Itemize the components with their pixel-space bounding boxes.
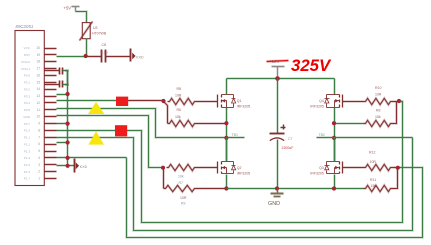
capacitor C7 2200uF polarized xyxy=(270,132,285,135)
wire +325V top rail xyxy=(227,77,335,80)
svg-text:9: 9 xyxy=(38,122,40,126)
svg-text:P3.4: P3.4 xyxy=(24,101,31,105)
svg-text:IRF3205: IRF3205 xyxy=(310,171,323,175)
node Q4 gate drive junction xyxy=(397,99,401,103)
wire F6 to connector xyxy=(57,164,75,167)
wire Q2 source to rail xyxy=(225,175,228,189)
node Q1 gate drive junction xyxy=(161,99,165,103)
wire U3 to node xyxy=(85,39,88,57)
resistor R12 10R xyxy=(343,166,364,169)
marker yellow triangle 1 xyxy=(88,102,105,114)
svg-text:Q3: Q3 xyxy=(319,166,324,170)
svg-text:17: 17 xyxy=(36,67,40,71)
svg-text:18: 18 xyxy=(36,60,40,64)
capacitor C2 xyxy=(45,69,60,72)
wire F1 P1 drive to Q1 gate node xyxy=(57,99,129,102)
node supply junction xyxy=(275,76,280,81)
node A junction xyxy=(84,54,88,58)
wire common-net pin stub middle xyxy=(57,122,68,125)
svg-text:P3.0: P3.0 xyxy=(24,74,31,78)
resistor R6 15k xyxy=(164,102,168,124)
svg-text:U3: U3 xyxy=(93,26,98,30)
wire node A to C8 xyxy=(86,55,102,58)
svg-text:R8: R8 xyxy=(177,87,182,91)
transistor Q4 IRF3205 xyxy=(342,95,344,108)
svg-text:R12: R12 xyxy=(369,151,375,155)
svg-text:6: 6 xyxy=(38,142,40,146)
svg-text:Q1: Q1 xyxy=(237,99,242,103)
svg-text:4: 4 xyxy=(38,156,40,160)
svg-text:325V: 325V xyxy=(291,56,332,75)
IC pin numbers xyxy=(36,46,40,181)
node Q2 gate drive junction xyxy=(161,166,165,170)
off-page connector KXD (top) xyxy=(129,49,132,62)
svg-text:IRF3205: IRF3205 xyxy=(237,171,250,175)
wire bottom rail xyxy=(227,187,364,190)
svg-text:P3.1: P3.1 xyxy=(24,81,31,85)
svg-text:12: 12 xyxy=(36,101,40,105)
svg-text:89C2051: 89C2051 xyxy=(16,24,34,29)
wire TB1 stub xyxy=(227,136,245,139)
svg-text:R9: R9 xyxy=(181,202,186,206)
svg-text:7: 7 xyxy=(38,135,40,139)
svg-text:11: 11 xyxy=(37,108,41,112)
svg-text:P1.0: P1.0 xyxy=(24,129,31,133)
wire C7 to bottom rail xyxy=(276,140,279,189)
svg-text:IRF3205: IRF3205 xyxy=(237,105,250,109)
svg-text:10k: 10k xyxy=(178,175,184,179)
varistor U3 HT07WB xyxy=(82,23,90,39)
wire rail to Q4 drain xyxy=(333,79,336,95)
svg-text:RST: RST xyxy=(24,53,30,57)
svg-text:VCC: VCC xyxy=(24,46,31,50)
svg-text:10R: 10R xyxy=(375,93,382,97)
svg-text:R9: R9 xyxy=(376,109,381,113)
svg-text:+5V: +5V xyxy=(64,6,72,11)
wire TB2 midpoint column xyxy=(333,108,336,162)
svg-text:10R: 10R xyxy=(180,196,187,200)
svg-text:P3.3: P3.3 xyxy=(24,94,31,98)
svg-text:IRF3205: IRF3205 xyxy=(310,105,323,109)
svg-text:1: 1 xyxy=(38,177,40,181)
wire common-net pin stub lower xyxy=(57,141,68,144)
wire pin row to node A xyxy=(57,55,86,58)
marker red square 1 xyxy=(116,97,128,106)
wire TB1 midpoint column xyxy=(225,108,228,162)
capacitor C8 0.1u xyxy=(100,50,103,63)
svg-text:KXD: KXD xyxy=(80,165,88,169)
wire F2 to TB1 node xyxy=(57,109,227,138)
wire F4 drive wrap to Q4 xyxy=(57,102,403,223)
wire Q3 source to rail xyxy=(333,175,336,189)
wire Q2 drain xyxy=(225,138,228,162)
svg-text:3: 3 xyxy=(38,163,40,167)
svg-text:TB1: TB1 xyxy=(232,133,238,137)
svg-text:8: 8 xyxy=(38,128,40,132)
node Q3 gate drive junction xyxy=(396,166,400,170)
svg-text:14: 14 xyxy=(36,87,40,91)
IC pin names xyxy=(21,46,31,181)
svg-text:10R: 10R xyxy=(175,94,182,98)
wire F5 wrap to TB2 xyxy=(57,138,413,231)
svg-text:R11: R11 xyxy=(370,178,376,182)
wire +5V to U3 xyxy=(76,12,87,23)
svg-text:C7: C7 xyxy=(288,137,293,141)
svg-text:P1.1: P1.1 xyxy=(24,136,31,140)
svg-text:P1.4: P1.4 xyxy=(24,156,31,160)
svg-text:C8: C8 xyxy=(102,43,107,47)
svg-text:2: 2 xyxy=(38,170,40,174)
marker yellow triangle 2 xyxy=(89,131,105,144)
svg-text:Q4: Q4 xyxy=(319,99,324,103)
svg-text:R10: R10 xyxy=(375,86,381,90)
svg-text:R7: R7 xyxy=(179,181,184,185)
resistor R10 10R xyxy=(343,100,364,103)
IC U1 89C2051 microcontroller xyxy=(15,31,44,186)
wire C8 to connector xyxy=(106,55,131,58)
wire TB2 stub xyxy=(317,136,335,139)
svg-text:0.1u: 0.1u xyxy=(101,50,108,54)
ground symbol GND xyxy=(275,186,279,190)
svg-text:P1.2: P1.2 xyxy=(24,142,31,146)
transistor Q3 IRF3205 xyxy=(342,162,344,174)
svg-text:P1.7: P1.7 xyxy=(24,177,31,181)
wire TB2 wrap to right xyxy=(335,136,413,139)
svg-text:P1.3: P1.3 xyxy=(24,149,31,153)
svg-text:KXD: KXD xyxy=(136,55,144,59)
marker red square 2 xyxy=(115,125,127,136)
resistor R5 10R pulldown xyxy=(162,168,165,189)
IC pin stubs and pin numbers xyxy=(45,49,57,179)
wire Q3 drain xyxy=(333,138,336,162)
svg-text:GND: GND xyxy=(268,201,280,207)
off-page connector KXD (bottom) xyxy=(73,159,76,173)
wire crystal loop xyxy=(63,71,68,85)
wire rail to C7 xyxy=(276,79,279,134)
wire common-net pin stub upper xyxy=(57,93,68,96)
svg-text:Q2: Q2 xyxy=(237,166,242,170)
svg-text:GND: GND xyxy=(23,115,31,119)
svg-text:15: 15 xyxy=(36,80,40,84)
svg-text:10: 10 xyxy=(36,115,40,119)
wire F3 drive to Q2 gate node xyxy=(57,116,164,168)
capacitor C3 xyxy=(45,83,60,86)
wire F5 drive wrap to Q3 xyxy=(57,156,127,159)
svg-text:XTAL2: XTAL2 xyxy=(21,60,30,64)
svg-text:16: 16 xyxy=(36,73,40,77)
transistor Q1 IRF3205 xyxy=(217,95,219,108)
svg-text:19: 19 xyxy=(36,53,40,57)
svg-text:XTAL1: XTAL1 xyxy=(21,67,30,71)
svg-text:P3.7: P3.7 xyxy=(24,122,31,126)
svg-text:5: 5 xyxy=(38,149,40,153)
wire left vertical net xyxy=(66,71,69,166)
svg-text:P1.6: P1.6 xyxy=(24,170,31,174)
svg-text:P3.2: P3.2 xyxy=(24,87,31,91)
wire Q1 drain to rail xyxy=(225,79,228,95)
transistor Q2 IRF3205 xyxy=(217,162,219,174)
svg-text:TB2: TB2 xyxy=(319,133,325,137)
svg-text:13: 13 xyxy=(36,94,40,98)
svg-text:20: 20 xyxy=(36,46,40,50)
svg-text:P1.5: P1.5 xyxy=(24,163,31,167)
svg-text:HT07WB: HT07WB xyxy=(92,32,107,36)
svg-text:P3.5: P3.5 xyxy=(24,108,31,112)
svg-text:R6: R6 xyxy=(177,108,182,112)
svg-text:2200uF: 2200uF xyxy=(282,146,294,150)
